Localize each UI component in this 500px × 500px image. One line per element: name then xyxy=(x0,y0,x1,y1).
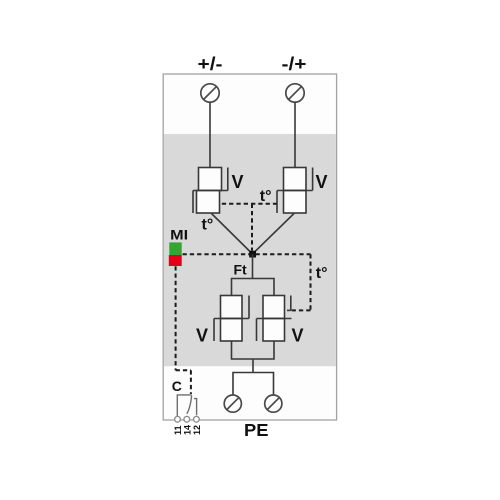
svg-text:PE: PE xyxy=(244,420,269,440)
device outline box xyxy=(163,74,336,420)
wire V1 to node xyxy=(212,214,253,255)
terminal screw X2 (-/+) xyxy=(286,84,304,102)
svg-text:t°: t° xyxy=(316,265,328,282)
svg-text:12: 12 xyxy=(192,425,202,435)
protection module gray zone xyxy=(164,134,336,366)
svg-text:Ft: Ft xyxy=(234,262,248,278)
svg-text:+/-: +/- xyxy=(198,54,223,74)
svg-text:t°: t° xyxy=(202,217,214,234)
svg-text:V: V xyxy=(196,326,208,346)
svg-text:V: V xyxy=(232,172,244,192)
svg-text:C: C xyxy=(172,378,182,394)
svg-text:V: V xyxy=(316,172,328,192)
terminal screw X1 (+/-) xyxy=(201,84,219,102)
dashed link right drop xyxy=(310,254,312,310)
wire node to branch tee xyxy=(252,254,254,279)
svg-text:14: 14 xyxy=(182,425,192,435)
wire X1 to varistor V1 xyxy=(209,102,211,168)
varistor V3 with thermal disconnector (bottom left) xyxy=(214,296,249,342)
PE terminal screw right xyxy=(265,395,282,412)
svg-text:-/+: -/+ xyxy=(282,54,307,74)
wire join to PE tee xyxy=(252,359,254,373)
varistor V4 with thermal disconnector (bottom right) xyxy=(257,296,292,342)
wire branch tee bottom xyxy=(232,341,275,359)
dashed link MI to node to right xyxy=(183,253,311,255)
dashed link MI down xyxy=(175,266,177,370)
svg-text:MI: MI xyxy=(170,227,188,243)
svg-text:t°: t° xyxy=(260,188,272,205)
svg-text:V: V xyxy=(292,326,304,346)
varistor V1 with thermal disconnector (top left) xyxy=(193,168,228,214)
contact terminal circle 14 xyxy=(184,416,190,422)
MI indicator green xyxy=(169,242,181,255)
dashed link jog right xyxy=(176,369,191,371)
node Ft junction xyxy=(249,251,256,258)
contact terminal circle 12 xyxy=(194,416,200,422)
MI indicator red xyxy=(169,255,182,266)
dashed link down to contact xyxy=(190,370,192,394)
wire branch tee top xyxy=(232,279,275,296)
wire V2 to node xyxy=(253,214,295,255)
wire PE tee xyxy=(233,373,274,396)
remote signalling contact C xyxy=(177,395,196,417)
wire X2 to varistor V2 xyxy=(294,102,296,168)
varistor V2 with thermal disconnector (top right) xyxy=(277,168,313,214)
contact terminal circle 11 xyxy=(175,416,181,422)
dashed thermal link drop to node xyxy=(251,204,253,251)
dashed link to V4 disconnector xyxy=(291,309,311,311)
dashed thermal link V1-V2 xyxy=(222,203,277,205)
PE terminal screw left xyxy=(224,395,241,412)
